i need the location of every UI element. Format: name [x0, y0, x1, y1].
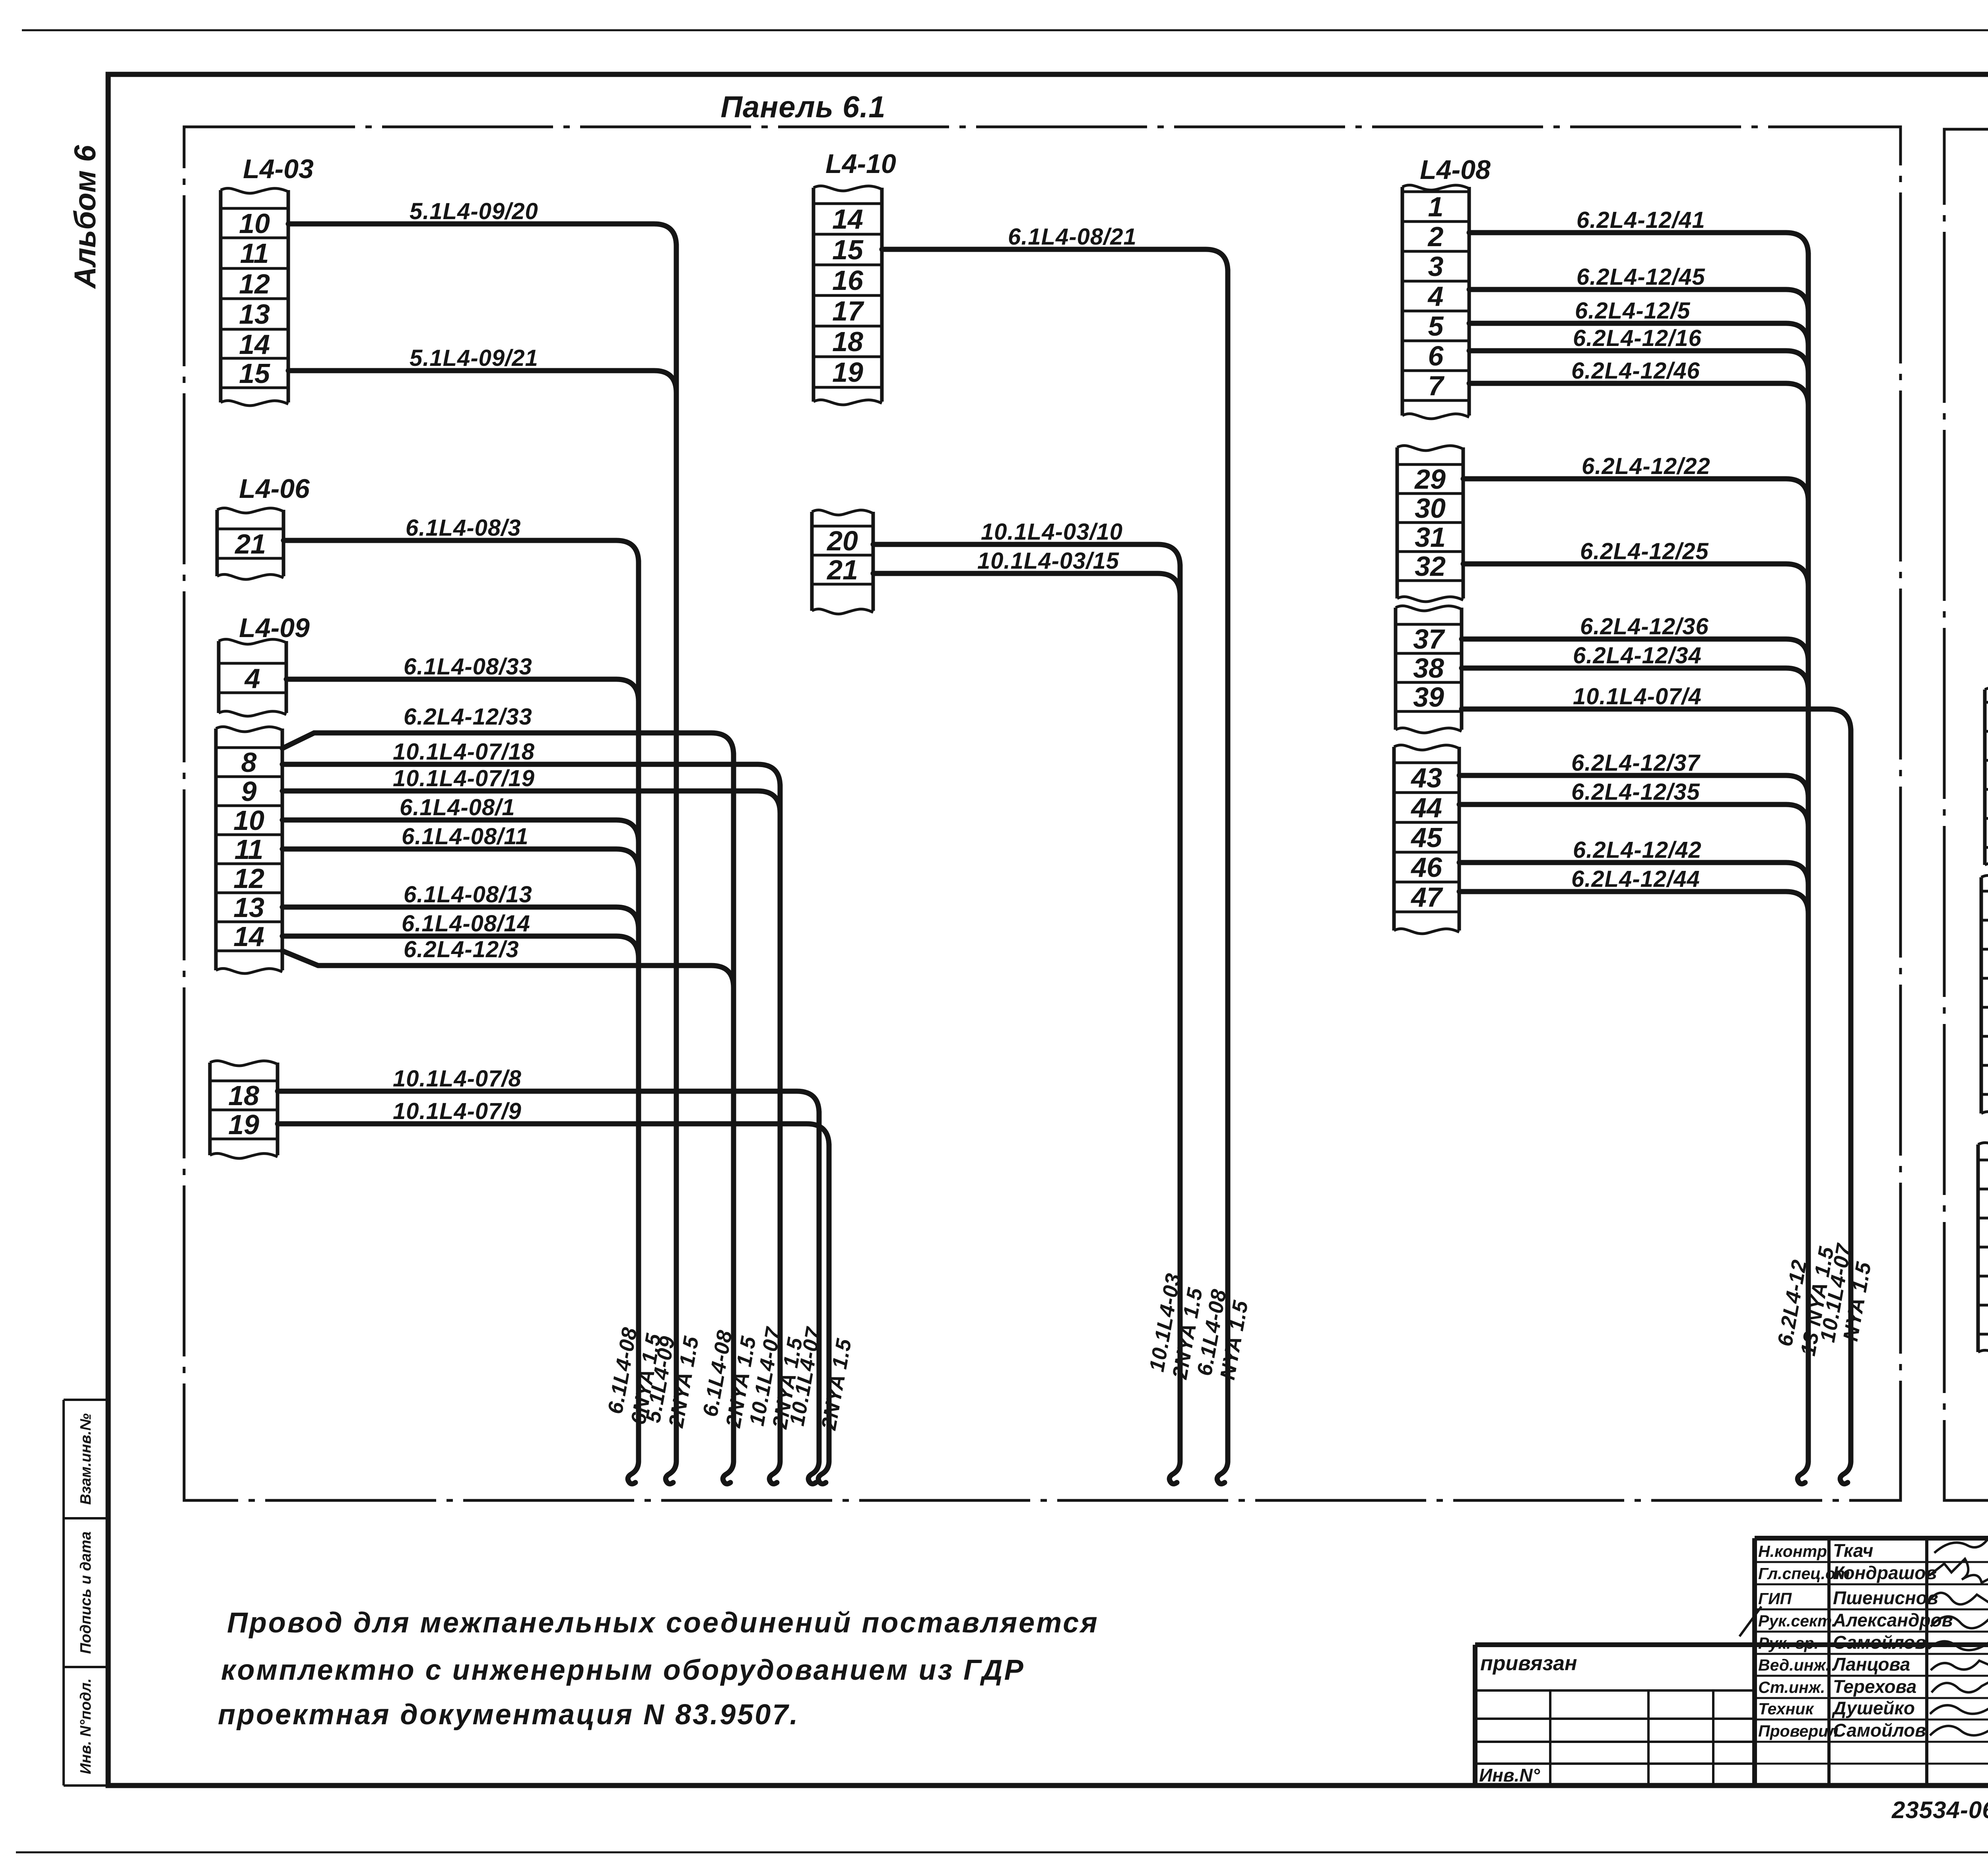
wire 6.2L4-12/16 from L4-08:6 — [1469, 325, 1808, 373]
svg-text:6.2L4-12/5: 6.2L4-12/5 — [1575, 298, 1691, 324]
svg-text:9: 9 — [241, 776, 257, 807]
wire 6.2L4-12/44 from 47 — [1459, 866, 1808, 914]
album caption Альбом 6 — [68, 145, 102, 289]
cable label 10.1L4-07 NYA1.5 — [1816, 1242, 1876, 1345]
svg-text:5: 5 — [1428, 311, 1444, 342]
svg-text:45: 45 — [1410, 822, 1442, 853]
svg-text:14: 14 — [832, 204, 863, 235]
svg-text:19: 19 — [832, 357, 863, 388]
wire 6.2L4-12/41 from L4-08:2 — [1469, 207, 1808, 255]
svg-text:L4-08: L4-08 — [1420, 155, 1491, 185]
svg-text:14: 14 — [239, 329, 270, 360]
left margin boxes — [64, 1400, 108, 1786]
cable label 10.1L4-07 2NYA1.5 — [745, 1325, 807, 1431]
svg-text:21: 21 — [826, 554, 858, 585]
svg-text:10.1L4-07/8: 10.1L4-07/8 — [393, 1066, 522, 1092]
panel 6.1 label — [720, 90, 885, 124]
cable label 6.1L4-08 2NYA1.5 — [699, 1328, 761, 1430]
svg-text:14: 14 — [233, 921, 264, 952]
note line 2 — [221, 1654, 1025, 1686]
terminal block cells 18-19 — [210, 1061, 278, 1158]
svg-text:16: 16 — [832, 265, 864, 296]
svg-text:15: 15 — [832, 234, 864, 265]
svg-text:6.2L4-12/35: 6.2L4-12/35 — [1571, 779, 1700, 805]
terminal block L4-09 cells 8-14 — [216, 727, 282, 973]
svg-text:6.1L4-08/14: 6.1L4-08/14 — [402, 911, 530, 936]
svg-text:Инв.N°: Инв.N° — [1479, 1765, 1540, 1786]
wire 6.2L4-12/46 from L4-08:7 — [1469, 358, 1808, 406]
svg-text:10.1L4-07/18: 10.1L4-07/18 — [393, 739, 535, 765]
svg-text:Самойлов: Самойлов — [1833, 1720, 1926, 1741]
svg-text:Ланцова: Ланцова — [1832, 1654, 1910, 1675]
cable label 6.1L4-08 6NYA1.5 — [604, 1325, 666, 1426]
cable trunk 10.1L4-07 (wire 9) — [818, 1144, 829, 1484]
wire 6.2L4-12/35 from 44 — [1459, 779, 1808, 827]
svg-text:10: 10 — [233, 805, 264, 836]
svg-text:18: 18 — [228, 1080, 259, 1111]
wire 10.1L4-03/10 from 20 — [873, 519, 1180, 567]
svg-text:30: 30 — [1415, 493, 1446, 524]
wire 6.2L4-12/36 from 37 — [1462, 614, 1808, 661]
svg-text:32: 32 — [1415, 551, 1446, 582]
svg-text:23534-06 40: 23534-06 40 — [1891, 1797, 1988, 1823]
svg-text:Подпись и дата: Подпись и дата — [78, 1531, 94, 1654]
svg-text:6.2L4-12/33: 6.2L4-12/33 — [404, 704, 532, 730]
svg-text:10.1L4-07/19: 10.1L4-07/19 — [393, 766, 535, 791]
svg-text:Ткач: Ткач — [1833, 1540, 1873, 1561]
wire 6.2L4-12/33 from L4-09:8 — [282, 704, 734, 755]
wire 10.1L4-07/9 from 19 — [278, 1098, 829, 1146]
svg-text:21: 21 — [234, 528, 266, 560]
svg-text:20: 20 — [826, 525, 858, 556]
svg-text:6.2L4-12/45: 6.2L4-12/45 — [1576, 264, 1705, 290]
svg-text:Душейко: Душейко — [1831, 1698, 1915, 1718]
svg-text:15: 15 — [239, 358, 270, 389]
cable trunk 6.2L4-12 to panel 6.2 — [1798, 253, 1808, 1484]
svg-text:13: 13 — [233, 892, 264, 923]
cable trunk 10.1L4-07 (wire 8) — [808, 1112, 819, 1484]
panel 6.2 border — [1944, 129, 1988, 1500]
svg-text:6: 6 — [1428, 340, 1444, 371]
wire 10.1L4-07/4 from 39 — [1462, 684, 1851, 731]
svg-text:Пшениснов: Пшениснов — [1833, 1587, 1938, 1608]
svg-text:10.1L4-07/9: 10.1L4-07/9 — [393, 1098, 522, 1124]
svg-text:6.2L4-12/34: 6.2L4-12/34 — [1573, 643, 1702, 668]
cable label 10.1L4-07 2NYA1.5 (2) — [785, 1325, 856, 1432]
cable trunk 6.2L4-12 panel 6.1 left — [723, 754, 734, 1484]
svg-text:38: 38 — [1413, 653, 1444, 684]
svg-text:43: 43 — [1410, 762, 1442, 793]
wire 6.2L4-12/37 from 43 — [1459, 750, 1808, 798]
svg-text:11: 11 — [235, 834, 264, 865]
wire 5.1L4-09/20 from L4-03:10 — [288, 198, 676, 246]
cable label 10.1L4-03 2NYA1.5 — [1145, 1271, 1207, 1381]
wire 6.1L4-08/11 from L4-09:11 — [282, 824, 639, 871]
svg-text:ГИП: ГИП — [1758, 1589, 1792, 1608]
wire 6.1L4-08/14 from L4-09:14 — [282, 911, 639, 958]
svg-text:L4-06: L4-06 — [239, 474, 310, 504]
wire 10.1L4-07/18 from L4-09:8 — [282, 739, 780, 787]
svg-text:6.2L4-12/42: 6.2L4-12/42 — [1573, 837, 1702, 863]
terminal block cells 43-47 — [1394, 745, 1459, 934]
svg-text:проектная документация N 8: проектная документация N 83.9507. — [218, 1699, 799, 1731]
svg-text:39: 39 — [1413, 682, 1444, 713]
svg-text:6.2L4-12/46: 6.2L4-12/46 — [1571, 358, 1700, 384]
svg-text:19: 19 — [228, 1109, 259, 1140]
cable trunk 6.1L4-08 middle — [1217, 270, 1228, 1484]
svg-text:6.2L4-12/44: 6.2L4-12/44 — [1571, 866, 1700, 892]
svg-text:11: 11 — [240, 238, 269, 269]
svg-text:6.2L4-12/37: 6.2L4-12/37 — [1571, 750, 1701, 776]
svg-text:Панель 6.1: Панель 6.1 — [720, 90, 885, 124]
svg-text:17: 17 — [832, 295, 864, 326]
svg-text:6.2L4-12/16: 6.2L4-12/16 — [1573, 325, 1702, 351]
wire 6.2L4-12/3 from L4-09:14 — [282, 936, 734, 988]
svg-text:6.2L4-12/3: 6.2L4-12/3 — [404, 936, 519, 962]
terminal block cells 31-37 — [1981, 875, 1988, 1117]
svg-text:7: 7 — [1428, 370, 1445, 401]
svg-text:10.1L4-07/4: 10.1L4-07/4 — [1573, 684, 1702, 709]
svg-text:Проверил: Проверил — [1758, 1722, 1839, 1740]
svg-text:6.2L4-12/41: 6.2L4-12/41 — [1576, 207, 1705, 233]
svg-text:2: 2 — [1427, 221, 1444, 252]
svg-text:5.1L4-09/21: 5.1L4-09/21 — [410, 345, 538, 371]
terminal block L4-03 — [221, 154, 314, 406]
svg-text:Терехова: Терехова — [1833, 1676, 1916, 1697]
cable trunk 10.1L4-07 right — [1840, 730, 1851, 1484]
wire 10.1L4-07/19 from L4-09:9 — [282, 766, 780, 813]
cable label 6.2L4-12 13NYA1.5 — [1773, 1244, 1839, 1358]
wire 6.1L4-08/3 from L4-06:21 — [283, 515, 639, 563]
margin caption Подпись и дата — [78, 1531, 94, 1654]
wire 6.1L4-08/13 from L4-09:13 — [282, 882, 639, 929]
svg-text:6.2L4-12/25: 6.2L4-12/25 — [1580, 538, 1709, 564]
svg-text:Инв. N°подл.: Инв. N°подл. — [78, 1678, 94, 1774]
wire 6.2L4-12/5 from L4-08:5 — [1469, 298, 1808, 346]
svg-text:13: 13 — [239, 299, 270, 330]
cable trunk 5.1L4-09 — [666, 245, 676, 1484]
svg-text:46: 46 — [1410, 852, 1442, 883]
wire 6.2L4-12/42 from 46 — [1459, 837, 1808, 885]
svg-text:6.2L4-12/22: 6.2L4-12/22 — [1582, 453, 1710, 479]
svg-text:Техник: Техник — [1758, 1700, 1814, 1718]
svg-text:10.1L4-03/10: 10.1L4-03/10 — [981, 519, 1123, 545]
svg-text:4: 4 — [244, 663, 260, 694]
wire 6.1L4-08/21 from L4-10:15 — [882, 224, 1228, 272]
margin caption Инв.№подл. — [78, 1678, 94, 1774]
cable trunk 6.1L4-08 panel 6.1 — [628, 561, 639, 1484]
svg-text:привязан: привязан — [1480, 1652, 1577, 1675]
svg-text:37: 37 — [1413, 624, 1445, 655]
svg-text:8: 8 — [241, 747, 257, 778]
margin caption Взам.инв.№ — [78, 1413, 94, 1505]
svg-text:29: 29 — [1414, 464, 1446, 495]
terminal block L4-09 (cell 4) — [219, 613, 310, 716]
wire 6.2L4-12/25 from 32 — [1463, 538, 1808, 586]
terminal block L4-08 — [1402, 155, 1491, 419]
svg-text:Рук. гр.: Рук. гр. — [1758, 1634, 1819, 1652]
svg-text:6.1L4-08/21: 6.1L4-08/21 — [1008, 224, 1137, 250]
svg-text:Александров: Александров — [1833, 1610, 1953, 1630]
svg-text:Ст.инж.: Ст.инж. — [1758, 1678, 1825, 1696]
svg-text:L4-10: L4-10 — [825, 149, 896, 179]
note line 1 — [227, 1607, 1099, 1639]
svg-text:5.1L4-09/20: 5.1L4-09/20 — [410, 198, 538, 224]
terminal block cells 21-25 — [1985, 688, 1988, 868]
svg-text:44: 44 — [1410, 792, 1442, 823]
svg-text:Кондрашов: Кондрашов — [1833, 1562, 1937, 1583]
terminal block cells 37-39 — [1396, 606, 1462, 733]
attachment box — [1475, 1652, 1755, 1786]
cable trunk 10.1L4-07 (wires 18,19) — [769, 785, 780, 1484]
svg-text:Рук.сект.: Рук.сект. — [1758, 1612, 1836, 1630]
terminal block cells 29-32 — [1397, 445, 1463, 602]
wire 5.1L4-09/21 from L4-03:15 — [288, 345, 676, 393]
svg-text:4: 4 — [1427, 281, 1444, 312]
terminal block cells 41-46 — [1978, 1142, 1988, 1355]
document number note — [1891, 1797, 1988, 1823]
cable label 6.1L4-08 NYA1.5 — [1193, 1287, 1253, 1381]
wire 10.1L4-07/8 from 18 — [278, 1066, 819, 1113]
svg-text:6.1L4-08/13: 6.1L4-08/13 — [404, 882, 532, 907]
svg-text:6.2L4-12/36: 6.2L4-12/36 — [1580, 614, 1709, 639]
svg-text:Вед.инж.: Вед.инж. — [1758, 1656, 1830, 1674]
terminal block L4-06 — [217, 474, 310, 579]
cable trunk 10.1L4-03 — [1169, 565, 1180, 1484]
panel 6.1 border — [184, 127, 1901, 1500]
signatures — [1739, 1538, 1988, 1753]
svg-text:6.1L4-08/3: 6.1L4-08/3 — [406, 515, 521, 541]
wire 6.1L4-08/33 from L4-09:4 — [286, 654, 639, 701]
svg-text:Взам.инв.№: Взам.инв.№ — [78, 1413, 94, 1505]
svg-text:31: 31 — [1415, 522, 1446, 553]
signature table grid — [1755, 1538, 1988, 1786]
svg-text:комплектно с инженерным обо: комплектно с инженерным оборудованием из… — [221, 1654, 1025, 1686]
svg-text:Самойлов: Самойлов — [1833, 1632, 1926, 1653]
note line 3 — [218, 1699, 799, 1731]
signature table rows — [1758, 1540, 1988, 1741]
svg-text:L4-03: L4-03 — [243, 154, 314, 184]
svg-text:L4-09: L4-09 — [239, 613, 310, 643]
svg-text:47: 47 — [1410, 882, 1443, 913]
wire 6.2L4-12/22 from 29 — [1463, 453, 1808, 501]
wire 6.1L4-08/1 from L4-09:10 — [282, 795, 639, 842]
svg-text:Провод для межпанельных сое: Провод для межпанельных соединений поста… — [227, 1607, 1099, 1639]
svg-text:Альбом 6: Альбом 6 — [68, 145, 102, 289]
svg-text:18: 18 — [832, 326, 863, 357]
svg-text:3: 3 — [1428, 251, 1444, 282]
title block outline — [108, 1538, 1988, 1786]
cable label 5.1L4-09 2NYA1.5 — [641, 1334, 703, 1430]
svg-text:6.1L4-08/11: 6.1L4-08/11 — [402, 824, 528, 849]
svg-text:12: 12 — [233, 863, 264, 894]
svg-text:12: 12 — [239, 268, 270, 299]
wire 6.2L4-12/45 from L4-08:4 — [1469, 264, 1808, 312]
svg-text:1: 1 — [1428, 191, 1444, 222]
svg-text:6.1L4-08/33: 6.1L4-08/33 — [404, 654, 532, 680]
svg-text:10.1L4-03/15: 10.1L4-03/15 — [977, 548, 1119, 574]
terminal block cells 20-21 — [812, 510, 873, 614]
svg-text:6.1L4-08/1: 6.1L4-08/1 — [400, 795, 515, 820]
svg-text:10: 10 — [239, 208, 270, 239]
wire 6.2L4-12/34 from 38 — [1462, 643, 1808, 690]
svg-text:Н.контр.: Н.контр. — [1758, 1542, 1831, 1560]
wire 10.1L4-03/15 from 21 — [873, 548, 1180, 596]
terminal block L4-10 — [813, 149, 896, 405]
